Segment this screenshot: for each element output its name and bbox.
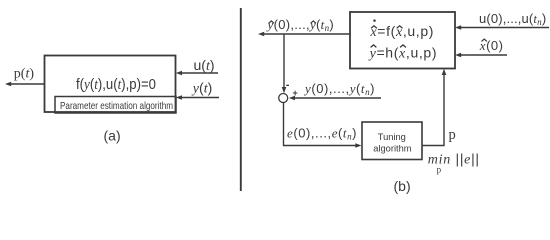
svg-text:u(t): u(t) <box>194 57 215 74</box>
wire y(t) input <box>176 95 219 100</box>
svg-text:p(t): p(t) <box>14 67 35 82</box>
svg-text:Parameter estimation algorithm: Parameter estimation algorithm <box>60 100 173 112</box>
wire p(t) output arrow <box>5 82 45 87</box>
svg-text:y(0),...,y(tn): y(0),...,y(tn) <box>266 17 335 33</box>
wire u(t) input <box>176 71 218 76</box>
svg-text:min ||e||: min ||e|| <box>428 150 480 167</box>
svg-text:Tuning: Tuning <box>378 132 406 142</box>
block: model equations <box>350 12 455 69</box>
label yhat(0),...,yhat(t_n) <box>266 17 335 33</box>
inner box: Parameter estimation algorithm <box>55 97 176 114</box>
label model equation line 1: xhatdot = f(xhat,u,p) <box>369 19 434 40</box>
svg-text:p: p <box>449 127 456 143</box>
svg-text:(b): (b) <box>394 178 411 194</box>
wire feedback branch down to summing junction <box>282 34 287 93</box>
wire y measurements input <box>289 96 381 101</box>
label xhat(0) <box>479 38 504 53</box>
svg-text:y(0),...,y(tn): y(0),...,y(tn) <box>303 81 375 97</box>
svg-text:+: + <box>293 88 298 98</box>
divider line <box>240 8 242 191</box>
label Tuning algorithm <box>373 132 411 153</box>
summing junction <box>279 94 288 103</box>
label min_p ||e|| <box>428 150 480 174</box>
svg-text:(a): (a) <box>104 128 121 144</box>
wire xhat(0) initial condition input <box>455 53 507 58</box>
svg-text:f(y(t),u(t),p)=0: f(y(t),u(t),p)=0 <box>76 77 156 93</box>
svg-text:e(0),...,e(tn): e(0),...,e(tn) <box>287 125 357 141</box>
svg-text:u(0),...,u(tn): u(0),...,u(tn) <box>479 11 546 27</box>
block: tuning algorithm <box>362 122 422 160</box>
block: parameter estimation (a) <box>45 56 176 113</box>
svg-text:-: - <box>286 79 290 91</box>
svg-text:y(t): y(t) <box>191 80 212 97</box>
svg-text:p: p <box>437 164 442 174</box>
label model equation line 2: yhat = h(xhat,u,p) <box>368 45 438 62</box>
wire yhat output (to left) <box>258 32 350 37</box>
wire error path (down then right into tuning box) <box>284 103 362 148</box>
svg-text:y=h(x,u,p): y=h(x,u,p) <box>368 45 438 62</box>
svg-text:algorithm: algorithm <box>373 143 411 153</box>
wire u input (b) <box>455 25 549 30</box>
svg-text:x=f(x,u,p): x=f(x,u,p) <box>369 23 434 40</box>
wire p feedback (right then up into model box) <box>422 69 446 146</box>
